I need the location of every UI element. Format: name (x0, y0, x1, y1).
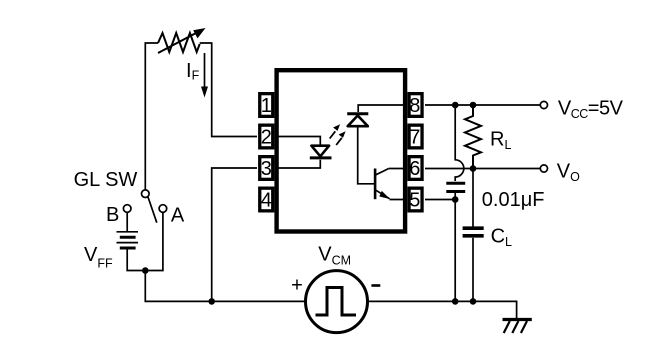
svg-text:3: 3 (261, 158, 272, 180)
wire: junction down and bottom rail to VCM source (145, 271, 305, 302)
phototransistor Q1 (375, 169, 390, 200)
wire: CL to bottom rail (472, 238, 474, 302)
LED D1 (310, 146, 332, 158)
wire: cap to pin5 node and down to bottom rail (454, 193, 456, 301)
VO terminal circle (540, 165, 547, 172)
svg-text:6: 6 (409, 158, 420, 180)
pin 6 (409, 157, 422, 181)
battery VFF (117, 232, 139, 248)
pin 1 (260, 94, 273, 118)
wire: B terminal to battery (126, 212, 128, 231)
wire: VO node down to CL (472, 169, 474, 227)
svg-text:A: A (171, 204, 185, 226)
pin 5 (409, 188, 422, 212)
svg-text:4: 4 (261, 190, 272, 212)
terminal B circle (123, 205, 131, 213)
switch blade (148, 197, 157, 223)
photodiode D2 (347, 114, 368, 127)
pin 8 (409, 94, 422, 118)
svg-text:GL SW: GL SW (74, 169, 138, 191)
wire: pin 8 to photodiode cathode (358, 105, 406, 112)
switch GL SW (123, 190, 166, 223)
wire: pin 3 to bottom rail (212, 168, 257, 301)
svg-text:8: 8 (409, 95, 420, 117)
junction dot battery/A (142, 267, 149, 274)
junction dot bypass/bottom rail (452, 298, 459, 305)
capacitor 0.01uF (446, 183, 465, 191)
wire: VCM right to ground corner (368, 301, 517, 318)
wire: photodiode anode to transistor base (358, 128, 374, 184)
pin 2 (260, 125, 273, 149)
resistor RL (465, 105, 481, 169)
junction dot pin8/RL (470, 102, 477, 109)
svg-text:+: + (291, 274, 303, 296)
wire: emitter to pin 5 (390, 199, 407, 201)
capacitor CL (463, 228, 484, 236)
ground (503, 320, 532, 334)
svg-text:1: 1 (261, 95, 272, 117)
label minus (371, 284, 380, 287)
pin 3 (260, 157, 273, 181)
wire: resistor right down to pin 2 (200, 43, 257, 137)
variable resistor arrow (158, 28, 206, 53)
wire: bypass vertical with hop over VO line (455, 105, 464, 181)
IC body U1 (277, 70, 406, 231)
pin 4 (260, 188, 273, 212)
current IF arrow (201, 53, 208, 98)
terminal A circle (159, 205, 167, 213)
wire: left loop top from left vertical to variable resistor (145, 43, 158, 190)
switch pole circle (142, 190, 150, 198)
junction dot pin8/bypass (452, 102, 459, 109)
junction dot bottom pin3 rail (208, 298, 215, 305)
wire: collector to pin 6 (389, 168, 406, 170)
wire: pin 6 to VO terminal (425, 168, 540, 170)
VCM pulse source (306, 271, 368, 333)
wire: pin 5 to junction (425, 199, 455, 201)
wire: battery bottom to junction (127, 249, 145, 271)
svg-text:VCC=5V: VCC=5V (558, 97, 624, 121)
svg-text:0.01μF: 0.01μF (482, 189, 545, 211)
wire: A terminal down to junction (145, 212, 163, 270)
svg-text:2: 2 (261, 127, 272, 149)
junction dot pin5/cap (452, 196, 459, 203)
wire: pin 8 to VCC terminal (425, 104, 540, 106)
svg-text:5: 5 (409, 190, 420, 212)
wire: pin 2 to LED anode (275, 137, 320, 146)
pin 7 (409, 125, 422, 149)
junction dot CL/bottom rail (470, 298, 477, 305)
svg-text:7: 7 (409, 127, 420, 149)
LED light emission arrows (330, 124, 346, 145)
variable resistor R (zigzag) (158, 33, 200, 52)
VCC terminal circle (540, 101, 547, 108)
wire: LED cathode to pin 3 (275, 160, 320, 168)
svg-text:B: B (106, 204, 119, 226)
junction dot RL/VO (470, 165, 477, 172)
